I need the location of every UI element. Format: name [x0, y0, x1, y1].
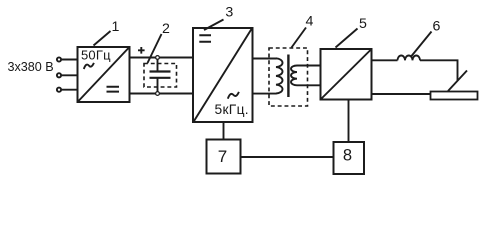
transformer T4 primary winding	[276, 58, 283, 93]
wire inverter to transformer bottom	[253, 93, 277, 95]
rectifier block 1 AC tilde	[84, 63, 94, 69]
capacitor C2 bottom plate	[150, 77, 171, 79]
svg-text:8: 8	[343, 147, 352, 165]
leader line 1	[94, 31, 111, 46]
wire transformer to rectifier bottom	[297, 84, 321, 86]
rectifier block 1 diagonal	[79, 48, 129, 101]
wire inverter to control 7	[223, 122, 225, 140]
svg-text:5: 5	[359, 16, 367, 32]
svg-text:1: 1	[112, 19, 120, 35]
svg-text:4: 4	[306, 13, 314, 29]
leader line 5	[336, 29, 358, 48]
input terminal C	[57, 88, 61, 92]
wire phase C	[61, 89, 77, 91]
electrode	[448, 71, 467, 92]
input terminal A	[57, 57, 61, 61]
wire bottom DC bus	[130, 93, 194, 95]
inverter block 3 AC tilde	[228, 92, 239, 99]
input terminal B	[57, 73, 61, 77]
capacitor C2 top lead	[157, 60, 159, 72]
rectifier block 1 DC sign	[107, 87, 120, 92]
capacitor C2 top plate	[150, 70, 171, 72]
svg-text:3: 3	[225, 5, 233, 21]
svg-text:7: 7	[218, 147, 227, 166]
rectifier block 1 body	[78, 47, 130, 102]
wire phase B	[61, 74, 77, 76]
leader line 6	[412, 32, 432, 57]
output rectifier block 5 body	[321, 49, 372, 100]
wire inverter to transformer top	[253, 58, 277, 60]
control block 8 body	[334, 142, 365, 174]
wire rectifier output bottom	[372, 93, 431, 95]
leader line 3	[204, 20, 224, 31]
wire top DC bus	[130, 57, 194, 59]
transformer T4 secondary winding	[291, 66, 297, 86]
svg-text:5кГц.: 5кГц.	[215, 102, 249, 117]
leader line 4	[292, 28, 307, 48]
wire rectifier to control 8	[348, 100, 350, 143]
wire rectifier output top	[372, 59, 398, 61]
capacitor C2 bottom lead	[157, 79, 159, 92]
inverter block 3 DC sign	[199, 35, 211, 42]
capacitor C2 dashed enclosure	[144, 64, 177, 88]
wire transformer to rectifier top	[297, 65, 321, 67]
workpiece bar	[431, 92, 478, 100]
transformer T4 dashed enclosure	[269, 48, 308, 106]
transformer T4 core	[287, 55, 289, 98]
plus sign	[138, 47, 145, 54]
inverter block 3 body	[193, 28, 253, 122]
wire inductor to electrode	[420, 60, 458, 80]
node top junction	[156, 56, 160, 60]
output rectifier block 5 diagonal	[322, 50, 371, 99]
inductor L6	[398, 56, 421, 61]
inverter block 3 diagonal	[194, 29, 252, 121]
svg-text:2: 2	[162, 21, 170, 37]
svg-text:3x380 В: 3x380 В	[8, 60, 54, 74]
wire phase A	[61, 59, 77, 61]
node bottom junction	[156, 92, 160, 96]
wire control 7 to control 8	[241, 156, 334, 158]
svg-text:50Гц: 50Гц	[81, 48, 111, 63]
leader line 2	[148, 34, 162, 63]
control block 7 body	[207, 140, 241, 174]
svg-text:6: 6	[433, 19, 441, 35]
